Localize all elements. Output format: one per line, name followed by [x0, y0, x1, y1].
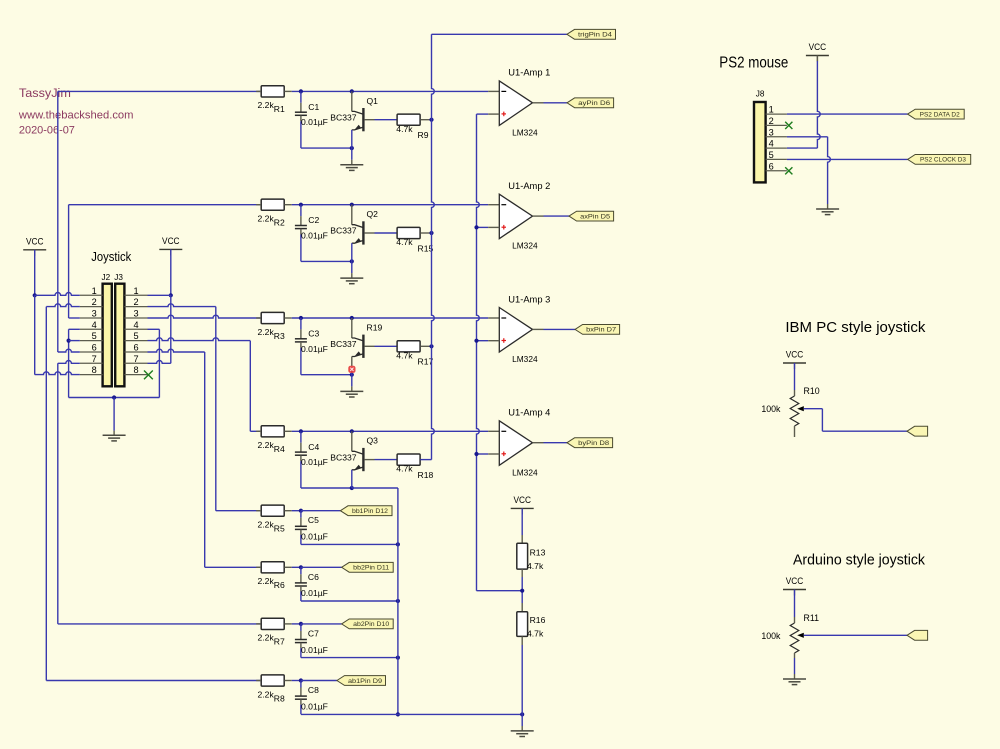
- svg-text:4.7k: 4.7k: [396, 464, 413, 474]
- potentiometer R10 100k: [761, 386, 819, 437]
- svg-text:VCC: VCC: [513, 495, 531, 506]
- wire base R19: [365, 345, 398, 347]
- flag ab1Pin D9: [337, 676, 386, 686]
- J2 pin 3 stub: [80, 309, 103, 319]
- resistor R3 2.2k: [256, 312, 292, 340]
- node R8/C8: [299, 678, 303, 682]
- svg-text:BC337: BC337: [330, 112, 356, 122]
- svg-text:BC337: BC337: [330, 226, 356, 236]
- svg-text:U1-Amp 3: U1-Amp 3: [508, 294, 550, 304]
- svg-text:0.01µF: 0.01µF: [301, 701, 328, 711]
- svg-text:www.thebackshed.com: www.thebackshed.com: [18, 110, 134, 122]
- wire base Q3: [365, 459, 398, 461]
- node ground net C6: [396, 599, 400, 603]
- resistor R16 4.7k: [517, 612, 546, 639]
- op-amp U1-Amp 4 LM324: [499, 408, 550, 478]
- wire R2 node: [292, 204, 500, 206]
- capacitor C7 0.01uF: [295, 624, 328, 658]
- svg-text:U1-Amp 4: U1-Amp 4: [508, 408, 550, 418]
- flag bb1Pin D12: [340, 506, 392, 516]
- J3 pin 5 stub: [124, 331, 147, 341]
- wire Q3 emitter to ground net: [352, 488, 398, 714]
- svg-text:ayPin D6: ayPin D6: [578, 100, 611, 107]
- wire output amp 1: [533, 102, 568, 104]
- svg-text:C6: C6: [308, 572, 319, 582]
- J3 pin 6 stub: [124, 343, 147, 353]
- wire R8 node: [292, 680, 301, 682]
- svg-text:Joystick: Joystick: [91, 249, 131, 264]
- flag trigPin D4: [567, 29, 616, 39]
- wire J8 pin4: [787, 147, 818, 149]
- svg-text:2.2k: 2.2k: [258, 633, 275, 643]
- J3 pin 1 stub: [124, 286, 147, 296]
- flag arduino output: [907, 630, 928, 640]
- node emitter R19: [350, 373, 354, 377]
- wire emitter R19 to ground: [351, 375, 353, 392]
- ground ps2: [816, 209, 839, 215]
- transistor Q2 BC337: [330, 205, 378, 262]
- wire plus input amp 1: [477, 113, 500, 115]
- wire C6 to ground net: [301, 600, 398, 602]
- svg-text:Q1: Q1: [367, 96, 379, 106]
- node R3 collector: [350, 316, 354, 320]
- vcc ps2: [806, 42, 829, 62]
- svg-text:R8: R8: [274, 693, 285, 703]
- red probe marker: [348, 366, 355, 373]
- wire J3 pin2 to R5 net: [148, 304, 263, 511]
- ground divider: [511, 731, 534, 737]
- ground joystick: [103, 435, 126, 441]
- node J3 pin1 vcc: [169, 293, 173, 297]
- svg-text:C8: C8: [308, 685, 319, 695]
- transistor Q3 BC337: [330, 431, 378, 488]
- wire C4 to emitter: [301, 487, 352, 489]
- wire to flag ab1Pin D9: [301, 680, 337, 682]
- svg-text:PS2 DATA D2: PS2 DATA D2: [920, 111, 961, 118]
- J8 pin 3 stub: [766, 127, 787, 137]
- flag bxPin D7: [575, 325, 620, 335]
- wire plus-input net vertical: [477, 114, 480, 591]
- svg-text:6: 6: [769, 161, 774, 171]
- svg-text:C3: C3: [308, 329, 319, 339]
- title Arduino style joystick: [793, 552, 926, 568]
- wire J3 pin5 to R4 net: [148, 338, 251, 341]
- svg-text:2.2k: 2.2k: [258, 100, 275, 110]
- transistor Q1 BC337: [330, 91, 378, 148]
- node joystick ground: [112, 395, 116, 399]
- svg-text:2.2k: 2.2k: [258, 440, 275, 450]
- potentiometer R11 100k: [761, 613, 819, 658]
- node R17 feedback: [429, 344, 433, 348]
- ground stage 3: [340, 391, 363, 397]
- wire to flag bb2Pin D11: [301, 566, 342, 568]
- connector J8 body: [754, 102, 766, 182]
- wire joystick J2 pin3 to R2 row: [69, 204, 262, 206]
- node J2 pin1 vcc: [33, 293, 37, 297]
- svg-text:ab1Pin D9: ab1Pin D9: [348, 678, 383, 685]
- J8 pin 4 stub: [766, 139, 787, 149]
- wire joystick ground stub: [113, 398, 115, 436]
- svg-text:7: 7: [92, 354, 97, 364]
- wire C1 to emitter: [301, 147, 352, 149]
- wire joystick J3 pin5 vertical to R4: [250, 341, 262, 432]
- svg-text:C5: C5: [308, 515, 319, 525]
- label J2: [102, 273, 111, 282]
- node bottom divider: [520, 712, 524, 716]
- svg-text:0.01µF: 0.01µF: [301, 588, 328, 598]
- node emitter Q3: [350, 486, 354, 490]
- J2 pin 6 stub: [80, 343, 103, 353]
- wire C5 to ground net: [301, 543, 398, 545]
- node R1/C1: [299, 89, 303, 93]
- svg-text:R16: R16: [530, 615, 546, 625]
- svg-text:C1: C1: [308, 102, 319, 112]
- wire J2 pin6 to R1 net: [58, 91, 80, 352]
- resistor R4 2.2k: [256, 426, 292, 454]
- svg-text:R13: R13: [530, 547, 546, 557]
- capacitor C5 0.01uF: [295, 511, 328, 545]
- wire J3 pin7 to vcc: [148, 361, 171, 364]
- svg-text:1: 1: [133, 286, 138, 296]
- node R15 feedback: [429, 231, 433, 235]
- flag ibm output: [907, 426, 928, 436]
- J2 pin 8 stub: [80, 365, 103, 375]
- svg-text:U1-Amp 2: U1-Amp 2: [508, 181, 550, 191]
- svg-text:R19: R19: [367, 322, 383, 332]
- transistor R19 BC337: [330, 318, 382, 375]
- svg-text:VCC: VCC: [26, 236, 44, 247]
- capacitor C8 0.01uF: [295, 681, 328, 715]
- node ground net C7: [396, 656, 400, 660]
- svg-text:3: 3: [133, 309, 138, 319]
- svg-text:bb1Pin D12: bb1Pin D12: [352, 508, 389, 515]
- capacitor C3 0.01uF: [295, 318, 328, 375]
- wire joystick J3 pin3 to R3 row: [148, 315, 263, 318]
- flag PS2 CLOCK D3: [908, 155, 971, 165]
- wire R11 to ground: [794, 658, 796, 679]
- svg-text:C2: C2: [308, 215, 319, 225]
- J8 pin 2 stub: [766, 116, 787, 126]
- svg-text:Arduino style joystick: Arduino style joystick: [793, 552, 926, 568]
- resistor R7 2.2k: [256, 618, 292, 646]
- J8 pin 6 stub: [766, 161, 787, 171]
- wire vcc right to J3 pin7: [170, 295, 172, 363]
- svg-text:5: 5: [769, 150, 774, 160]
- svg-text:VCC: VCC: [162, 236, 180, 247]
- wire J8 pin3 to ground: [787, 137, 831, 209]
- node J2 pin5 ground: [67, 339, 71, 343]
- capacitor C2 0.01uF: [295, 205, 328, 262]
- svg-text:2020-06-07: 2020-06-07: [19, 125, 75, 137]
- svg-text:R2: R2: [274, 218, 285, 228]
- node R2/C2: [299, 203, 303, 207]
- wire vcc right down: [170, 249, 172, 295]
- node emitter Q2: [350, 259, 354, 263]
- svg-text:4: 4: [133, 320, 138, 330]
- node R9 feedback: [429, 118, 433, 122]
- wire plus input amp 4: [477, 453, 500, 455]
- svg-text:100k: 100k: [761, 404, 781, 414]
- svg-text:R9: R9: [418, 130, 429, 140]
- svg-text:R5: R5: [274, 524, 285, 534]
- op-amp U1-Amp 2 LM324: [499, 181, 550, 251]
- J8 pin 5 stub: [766, 150, 787, 160]
- flag ayPin D6: [567, 98, 614, 108]
- J3 pin 3 stub: [124, 309, 147, 319]
- svg-text:100k: 100k: [761, 631, 781, 641]
- svg-text:C4: C4: [308, 442, 319, 452]
- svg-text:6: 6: [92, 343, 97, 353]
- resistor R9 4.7k: [396, 114, 431, 140]
- wire output amp 3: [533, 328, 576, 330]
- wire R7 node: [292, 623, 301, 625]
- wire base Q1: [365, 119, 398, 121]
- resistor R6 2.2k: [256, 562, 292, 590]
- resistor R17 4.7k: [396, 341, 433, 367]
- wire C3 to emitter: [301, 374, 352, 376]
- svg-text:2: 2: [769, 116, 774, 126]
- flag ab2Pin D10: [342, 619, 394, 629]
- wire output amp 4: [533, 442, 568, 444]
- ground stage 1: [340, 165, 363, 171]
- wire divider mid to plus net: [477, 590, 523, 592]
- flag byPin D8: [567, 438, 613, 448]
- wire R6 node: [292, 566, 301, 568]
- svg-text:PS2 CLOCK D3: PS2 CLOCK D3: [920, 157, 966, 164]
- svg-text:5: 5: [133, 331, 138, 341]
- vcc arduino: [783, 576, 806, 596]
- svg-text:4: 4: [92, 320, 97, 330]
- wire R11 wiper to flag: [804, 634, 907, 636]
- wire joystick J2 pin6 to R1 row: [58, 90, 262, 92]
- node R1 collector: [350, 89, 354, 93]
- svg-text:2: 2: [133, 297, 138, 307]
- svg-text:C7: C7: [308, 628, 319, 638]
- wire to flag bb1Pin D12: [301, 510, 341, 512]
- svg-text:6: 6: [133, 343, 138, 353]
- svg-text:0.01µF: 0.01µF: [301, 532, 328, 542]
- resistor R2 2.2k: [256, 199, 292, 227]
- J3 pin 4 stub: [124, 320, 147, 330]
- wire vcc left down: [34, 250, 36, 295]
- label J8: [756, 90, 765, 99]
- svg-text:0.01µF: 0.01µF: [301, 344, 328, 354]
- svg-text:R3: R3: [274, 331, 285, 341]
- wire J2 pin4 ground branch: [69, 329, 80, 397]
- wire J8 pin5 to PS2 CLOCK: [787, 158, 908, 160]
- svg-text:LM324: LM324: [512, 241, 538, 251]
- wire output amp 2: [533, 215, 570, 217]
- node R2 collector: [350, 203, 354, 207]
- resistor R1 2.2k: [256, 86, 292, 114]
- svg-text:4: 4: [769, 139, 774, 149]
- node R5/C5: [299, 509, 303, 513]
- svg-text:R6: R6: [274, 580, 285, 590]
- wire J2 pin8 vcc: [35, 372, 80, 375]
- svg-text:2.2k: 2.2k: [258, 576, 275, 586]
- svg-text:TassyJim: TassyJim: [19, 86, 71, 100]
- wire feedback net vertical: [432, 34, 435, 459]
- wire R1 node: [292, 90, 500, 92]
- svg-text:4.7k: 4.7k: [396, 350, 413, 360]
- J2 pin 2 stub: [80, 297, 103, 307]
- J2 pin 4 stub: [80, 320, 103, 330]
- wire J2 pin3 from R2 net: [69, 205, 80, 318]
- svg-text:R18: R18: [418, 470, 434, 480]
- svg-text:bxPin D7: bxPin D7: [586, 327, 617, 334]
- svg-text:Q3: Q3: [367, 436, 379, 446]
- svg-text:8: 8: [133, 365, 138, 375]
- svg-text:J3: J3: [114, 273, 123, 282]
- svg-text:bb2Pin D11: bb2Pin D11: [353, 565, 390, 572]
- node plus amp 3: [474, 339, 478, 343]
- svg-text:4.7k: 4.7k: [527, 561, 544, 571]
- flag axPin D5: [569, 211, 614, 221]
- wire J8 pin1 to PS2 DATA: [787, 113, 908, 115]
- node plus amp 4: [474, 452, 478, 456]
- svg-text:VCC: VCC: [786, 576, 804, 587]
- J2 pin 5 stub: [80, 331, 103, 341]
- svg-text:2.2k: 2.2k: [258, 689, 275, 699]
- node plus amp 2: [474, 225, 478, 229]
- svg-text:2.2k: 2.2k: [258, 214, 275, 224]
- node emitter Q1: [350, 146, 354, 150]
- connector J3 body: [115, 284, 124, 387]
- wire base Q2: [365, 232, 398, 234]
- svg-text:PS2 mouse: PS2 mouse: [719, 55, 788, 72]
- wire J2 pin5: [69, 340, 80, 342]
- author url www.thebackshed.com: [18, 110, 134, 122]
- svg-text:0.01µF: 0.01µF: [301, 645, 328, 655]
- svg-text:R4: R4: [274, 444, 285, 454]
- node R3/C3: [299, 316, 303, 320]
- svg-text:trigPin D4: trigPin D4: [578, 32, 613, 39]
- label J3: [114, 273, 123, 282]
- svg-text:0.01µF: 0.01µF: [301, 457, 328, 467]
- wire vcc ibm to R10: [794, 363, 796, 396]
- title PS2 mouse: [719, 55, 788, 72]
- svg-text:axPin D5: axPin D5: [580, 213, 611, 220]
- flag PS2 DATA D2: [908, 109, 965, 119]
- svg-text:5: 5: [92, 331, 97, 341]
- wire emitter Q1 to ground: [351, 148, 353, 165]
- svg-text:BC337: BC337: [330, 452, 356, 462]
- resistor R5 2.2k: [256, 505, 292, 533]
- svg-text:2: 2: [92, 297, 97, 307]
- wire R16 to ground: [521, 636, 523, 731]
- svg-text:U1-Amp 1: U1-Amp 1: [508, 68, 550, 78]
- wire C2 to emitter: [301, 260, 352, 262]
- title Joystick: [91, 249, 131, 264]
- ground stage 2: [340, 278, 363, 284]
- resistor R8 2.2k: [256, 675, 292, 703]
- J8 pin 1 stub: [766, 105, 787, 115]
- vcc divider: [511, 495, 534, 515]
- resistor R15 4.7k: [396, 227, 433, 253]
- svg-text:LM324: LM324: [512, 467, 538, 477]
- svg-text:R1: R1: [274, 104, 285, 114]
- svg-text:3: 3: [92, 309, 97, 319]
- svg-text:8: 8: [92, 365, 97, 375]
- wire J2 pin1: [35, 293, 80, 296]
- svg-text:2.2k: 2.2k: [258, 520, 275, 530]
- resistor R13 4.7k: [517, 543, 546, 571]
- title IBM PC style joystick: [785, 320, 926, 336]
- wire C7 to ground net: [301, 657, 398, 659]
- wire R4 node: [292, 430, 500, 432]
- wire J2 pin2 to R8 net: [46, 304, 262, 681]
- wire plus input amp 2: [477, 226, 500, 228]
- J3 pin 8 stub: [124, 365, 147, 375]
- svg-text:J8: J8: [756, 90, 765, 99]
- wire J2 pin7 to R7 net: [58, 361, 262, 624]
- node R7/C7: [299, 622, 303, 626]
- svg-text:J2: J2: [102, 273, 111, 282]
- resistor R18 4.7k: [396, 454, 433, 480]
- svg-text:LM324: LM324: [512, 354, 538, 364]
- node R4 collector: [350, 429, 354, 433]
- svg-text:BC337: BC337: [330, 339, 356, 349]
- J2 pin 7 stub: [80, 354, 103, 364]
- wire J3 pin6 to R6 net: [148, 349, 263, 567]
- wire trigPin row: [432, 33, 567, 35]
- op-amp U1-Amp 3 LM324: [499, 294, 550, 364]
- no-connect J3 pin8: [144, 371, 153, 380]
- flag bb2Pin D11: [342, 562, 394, 572]
- wire R5 node: [292, 510, 301, 512]
- wire R10 wiper: [804, 409, 907, 432]
- capacitor C4 0.01uF: [295, 431, 328, 488]
- node R4/C4: [299, 429, 303, 433]
- vcc right joystick: [159, 236, 182, 256]
- wire vcc left to J2 pin8: [34, 295, 36, 374]
- svg-text:2.2k: 2.2k: [258, 327, 275, 337]
- vcc left joystick: [23, 236, 46, 256]
- node divider mid: [520, 589, 524, 593]
- svg-text:4.7k: 4.7k: [527, 629, 544, 639]
- capacitor C1 0.01uF: [295, 91, 328, 148]
- svg-text:3: 3: [769, 127, 774, 137]
- date 2020-06-07: [19, 125, 75, 137]
- svg-text:ab2Pin D10: ab2Pin D10: [353, 621, 390, 628]
- vcc ibm: [783, 350, 806, 370]
- svg-text:1: 1: [92, 286, 97, 296]
- capacitor C6 0.01uF: [295, 567, 328, 601]
- J3 pin 2 stub: [124, 297, 147, 307]
- svg-text:R7: R7: [274, 637, 285, 647]
- svg-text:R10: R10: [804, 386, 820, 396]
- wire vcc to R13: [521, 508, 523, 543]
- svg-text:R11: R11: [804, 613, 820, 623]
- J2 pin 1 stub: [80, 286, 103, 296]
- svg-text:0.01µF: 0.01µF: [301, 231, 328, 241]
- svg-text:1: 1: [769, 105, 774, 115]
- node ground net bottom: [396, 712, 400, 716]
- ground arduino: [783, 679, 806, 685]
- connector J2 body: [103, 284, 112, 387]
- no-connect J8 pin2: [785, 122, 792, 129]
- wire plus input amp 3: [477, 340, 500, 342]
- wire vcc arduino to R11: [794, 590, 796, 624]
- wire joystick ground U: [69, 397, 160, 399]
- wire emitter Q2 to ground: [351, 261, 353, 278]
- no-connect J8 pin6: [785, 167, 792, 174]
- node R6/C6: [299, 565, 303, 569]
- J3 pin 7 stub: [124, 354, 147, 364]
- wire J3 pin1 to vcc: [148, 294, 171, 296]
- op-amp U1-Amp 1 LM324: [499, 68, 550, 138]
- svg-text:7: 7: [133, 354, 138, 364]
